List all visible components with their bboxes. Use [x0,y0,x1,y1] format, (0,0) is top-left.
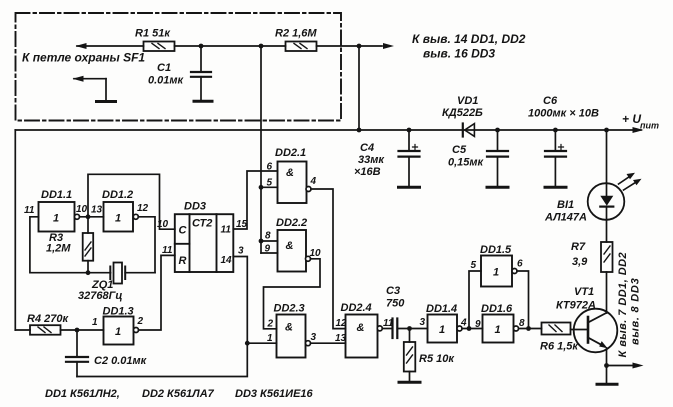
node junction pin8 tap [259,239,264,244]
svg-text:1: 1 [92,317,98,328]
svg-text:2: 2 [267,319,274,330]
NAND gate DD2.1 [278,162,312,204]
inverter DD1.6 [483,315,519,343]
capacitor C3 [393,319,428,339]
svg-text:C: C [179,225,188,237]
capacitor C5 [487,130,508,186]
svg-text:С6: С6 [543,95,558,107]
node junction rail/LED branch [604,128,609,133]
NAND gate DD2.3 [277,315,311,358]
capacitor C4 [399,130,420,186]
wire: DD2.3 output to DD2.4 pin 13 [311,342,346,344]
svg-text:R4 270к: R4 270к [27,313,69,325]
node junction rail/C4 [407,128,412,133]
resistor R4 [15,325,60,335]
svg-text:пит: пит [640,121,659,131]
svg-text:&: & [357,322,365,334]
svg-text:VT1: VT1 [574,286,594,298]
svg-text:С3: С3 [386,285,400,297]
inverter DD1.5 [481,256,517,287]
svg-text:11: 11 [221,225,232,236]
node junction DD1.4 out [467,326,472,331]
svg-text:&: & [285,322,293,334]
arrow +Uпит rail end [633,127,644,133]
wire: DD1.2 output to crystal [138,217,155,273]
svg-text:DD3: DD3 [184,201,206,213]
svg-text:DD1.5: DD1.5 [480,244,512,256]
svg-text:10: 10 [157,219,169,230]
arrow to guard loop (lower) with ground [73,76,107,100]
svg-text:0,15мк: 0,15мк [448,157,485,169]
ground for emitter [597,383,617,386]
capacitor C1 [191,46,211,100]
svg-text:9: 9 [475,319,481,330]
svg-text:10: 10 [76,204,88,215]
inverter DD1.4 [428,315,463,343]
svg-text:С1: С1 [157,62,171,74]
wire: DD1.1 input feedback [30,217,111,273]
dashed guard-loop enclosure [16,13,342,121]
wire: R1 to R2 [175,45,286,47]
wire: pin 8 tap [261,240,278,242]
ground for C1 [194,100,212,103]
svg-text:1: 1 [115,213,121,225]
wire: DD2.2 output to DD2.3 pin 2 [264,259,321,329]
wire: DD3 output 15 to DD2.1 pin 6 [233,171,277,229]
svg-text:DD2.2: DD2.2 [276,217,307,229]
node junction emitter/common [604,363,609,368]
svg-text:СТ2: СТ2 [192,218,212,230]
capacitor C2 [66,330,88,377]
svg-text:750: 750 [386,298,405,310]
ground for R5 [399,381,420,384]
wire: rail left drop to R4 [14,130,16,330]
wire: node up to DD1.5 input [469,271,481,329]
resistor R7 [601,242,613,272]
node junction C3 / R5 / DD1.4 [407,326,412,331]
svg-text:1: 1 [115,326,121,338]
node junction rail/R2 branch [357,128,362,133]
svg-text:КТ972А: КТ972А [556,300,596,312]
svg-text:14: 14 [221,255,233,266]
svg-text:3: 3 [311,332,317,343]
node junction DD3.3 / C2 / DD2.3 pin1 [245,341,250,346]
node label +Uпит [622,112,659,131]
svg-text:3: 3 [420,317,426,328]
svg-text:С4: С4 [360,142,374,154]
svg-text:×16В: ×16В [354,166,381,178]
node junction at R2 input [259,44,264,49]
wire: rail to LED [606,130,608,184]
svg-text:1000мк × 10В: 1000мк × 10В [528,108,599,120]
ground for C4 [399,186,420,189]
svg-text:DD2.4: DD2.4 [341,302,372,314]
wire: DD1.3 output up to DD3 R input [139,255,175,330]
svg-text:1,2М: 1,2М [46,243,71,255]
resistor R2 [286,42,317,52]
svg-text:С2 0.01мк: С2 0.01мк [94,355,148,367]
svg-text:2: 2 [137,316,144,327]
svg-text:0.01мк: 0.01мк [148,75,185,87]
ground for C5 [487,186,508,189]
crystal ZQ1 [110,263,155,284]
node junction at R2 output [357,44,362,49]
value label VT1 КТ972А [556,286,596,312]
svg-text:К петле охраны SF1: К петле охраны SF1 [22,51,145,65]
svg-text:R1 51к: R1 51к [135,28,171,40]
wire: C2 bottom run to DD2.3 node [77,343,247,376]
wire: DD1.6 output to R6 [519,328,542,330]
svg-text:6: 6 [517,259,523,270]
svg-text:R: R [179,255,187,267]
resistor R1 [144,42,175,52]
wire: common arrow right [607,365,633,367]
value label VD1 КД522Б [442,95,483,119]
svg-text:DD2.1: DD2.1 [275,147,306,159]
svg-text:С5: С5 [452,144,467,156]
wire: loop line to R1 [77,45,144,47]
wire: node up and over to DD3 C input [88,174,175,229]
resistor R5 [404,329,416,382]
svg-text:1: 1 [493,267,499,279]
wire: supply node down to rail [358,46,360,130]
wire: DD1.1 output node [80,216,104,218]
wire: +U supply rail [15,129,641,131]
arrow to guard loop (upper) [76,43,87,49]
svg-text:1: 1 [53,213,59,225]
node junction rail/C5 [495,128,500,133]
wire: pin 5 from supply-sense line [261,186,278,188]
svg-text:5: 5 [471,260,477,271]
svg-text:8: 8 [519,318,525,329]
svg-text:R6 1,5к: R6 1,5к [540,341,579,353]
wire: pin 9 from supply-sense line [261,252,278,254]
node junction pin5 tap [259,185,264,190]
svg-text:К выв. 14 DD1, DD2: К выв. 14 DD1, DD2 [412,32,526,46]
svg-text:11: 11 [162,245,173,256]
svg-text:BI1: BI1 [557,199,574,211]
ground symbol (loop return) [97,100,116,103]
svg-text:4: 4 [310,176,317,187]
wire: DD2.4 output to C3 [382,328,392,330]
wire: R7 to VT1 collector [606,272,608,313]
arrow to common pins [633,363,644,369]
svg-text:R7: R7 [571,241,586,253]
svg-text:DD1.6: DD1.6 [481,303,513,315]
wire: node to DD2.3 pin 1 [247,342,276,344]
svg-text:&: & [286,240,294,252]
svg-text:11: 11 [24,205,35,216]
value label R3 1,2М [46,232,71,255]
svg-text:DD1.4: DD1.4 [426,303,457,315]
svg-text:DD1 К561ЛН2,: DD1 К561ЛН2, [45,388,120,400]
svg-text:9: 9 [265,244,271,255]
svg-text:8: 8 [265,231,271,242]
wire: R4 to DD1.3 input [61,329,104,331]
wire: DD3 output 3 down to DD2.3 pin 1 node [233,257,247,344]
value label ZQ1 32768Гц [78,279,122,302]
svg-text:3,9: 3,9 [572,256,588,268]
inverter DD1.3 [104,317,139,345]
wire: DD1.4 output node [462,328,483,330]
svg-text:&: & [286,167,294,179]
value label BI1 АЛ147А [544,199,587,224]
wire: DD1.5 output down to common output node [517,271,529,329]
svg-text:13: 13 [91,205,103,216]
svg-text:DD1.1: DD1.1 [41,189,72,201]
ground for C6 [545,186,566,189]
svg-text:АЛ147А: АЛ147А [544,212,587,224]
node junction R3 / ZQ1 / feedback [86,270,91,275]
node junction R4 / C2 / DD1.3 [75,328,80,333]
svg-text:R5 10к: R5 10к [419,353,455,365]
svg-text:4: 4 [460,318,467,329]
svg-text:12: 12 [137,203,149,214]
svg-text:DD1.2: DD1.2 [102,189,133,201]
svg-text:+ U: + U [622,112,641,126]
svg-text:1: 1 [439,324,445,336]
svg-text:DD1.3: DD1.3 [103,306,134,318]
node junction rail/C6 [553,128,558,133]
node junction DD1.5/DD1.6 outputs [526,326,531,331]
wire: LED to R7 [606,220,608,242]
svg-text:DD3 К561ИЕ16: DD3 К561ИЕ16 [235,388,314,400]
svg-text:15: 15 [236,219,248,230]
svg-text:32768Гц: 32768Гц [78,290,122,302]
svg-text:6: 6 [267,162,273,173]
svg-text:DD2.3: DD2.3 [274,303,305,315]
LED BI1 [588,173,642,220]
resistor R3 [83,218,94,273]
svg-text:33мк: 33мк [358,154,385,166]
node junction DD1.1 out / R3 / C input [86,214,91,219]
svg-text:1: 1 [267,333,273,344]
wire: R2 input node down to DD2 gate inputs [260,46,262,253]
inverter DD1.2 [104,202,139,232]
node label К выв. 14 DD1, DD2 / выв. 16 DD3 [412,32,526,61]
value label C1 0.01мк [148,62,185,87]
svg-text:1: 1 [495,324,501,336]
inverter DD1.1 [39,202,80,232]
svg-text:10: 10 [310,248,322,259]
value label C5 0,15мк [448,144,485,169]
svg-text:К выв. 7 DD1, DD2: К выв. 7 DD1, DD2 [617,252,629,358]
counter DD3 CT2 [175,214,234,272]
svg-text:5: 5 [267,178,273,189]
capacitor C6 [545,130,566,186]
wire: emitter down [606,348,608,383]
svg-text:DD2 К561ЛА7: DD2 К561ЛА7 [142,388,215,400]
resistor R6 [542,323,571,335]
svg-text:выв. 16 DD3: выв. 16 DD3 [423,47,495,61]
value label C3 750 [386,285,405,310]
wire: R2 to supply node with arrow [317,45,383,47]
svg-text:3: 3 [238,246,244,257]
transistor VT1 [571,309,618,353]
value label C6 1000мк x10В [528,95,599,120]
node junction at C1 [199,44,204,49]
svg-text:R2 1,6М: R2 1,6М [275,28,317,40]
NAND gate DD2.4 [346,315,383,358]
arrow to pins 14 DD1,DD2 / 16 DD3 [383,43,394,49]
value label R7 3,9 [571,241,588,268]
NAND gate DD2.2 [278,230,311,272]
svg-text:КД522Б: КД522Б [442,107,483,119]
value label C4 33мк x16В [354,142,385,178]
svg-text:выв. 8 DD3: выв. 8 DD3 [630,278,642,345]
diode VD1 [463,124,475,137]
wire: DD2.1 output to DD2.4 pin 12 [311,189,346,329]
svg-text:VD1: VD1 [457,95,478,107]
